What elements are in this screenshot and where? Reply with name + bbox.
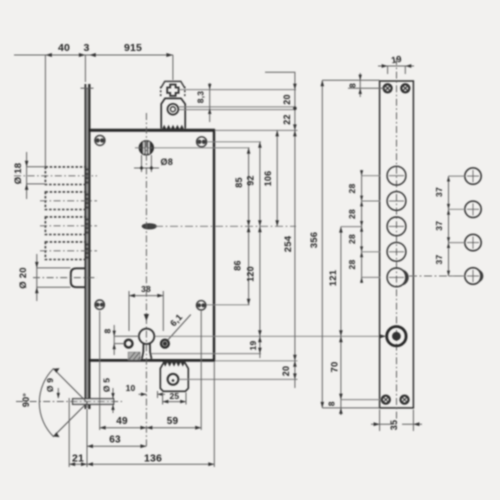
svg-text:136: 136: [144, 453, 162, 465]
dash link bottom: [409, 275, 464, 277]
svg-text:356: 356: [309, 232, 320, 248]
svg-text:3: 3: [83, 42, 89, 54]
svg-text:35: 35: [389, 420, 399, 430]
svg-text:915: 915: [124, 42, 142, 54]
bottom circle crescent: [477, 269, 484, 283]
svg-text:70: 70: [330, 362, 341, 373]
leader round hole: [179, 106, 296, 108]
chain 28x4: [361, 170, 363, 283]
bottom hole dark crescent: [401, 269, 409, 285]
deadbolt B3: [45, 217, 87, 235]
leader body top: [215, 129, 298, 131]
svg-text:254: 254: [283, 235, 294, 252]
plate outline: [380, 81, 414, 408]
leader body bottom: [215, 360, 298, 362]
lower tab: [160, 361, 188, 391]
svg-text:19: 19: [248, 341, 258, 351]
top tab lower lobe: [161, 98, 185, 128]
plate centerline: [396, 58, 398, 426]
svg-text:92: 92: [246, 175, 256, 185]
svg-text:8,3: 8,3: [196, 91, 206, 103]
svg-text:19: 19: [390, 54, 402, 66]
svg-text:21: 21: [72, 453, 84, 465]
screw hole bottom-right: [197, 301, 206, 310]
keyhole side hole left: [125, 340, 133, 348]
faceplate: [85, 88, 90, 408]
lower tab serration: [163, 362, 185, 366]
deadbolt B2: [45, 192, 87, 210]
svg-text:90°: 90°: [21, 393, 31, 407]
top tab upper lobe: [161, 81, 185, 97]
svg-text:Ø 20: Ø 20: [18, 267, 29, 288]
hatched detail: [128, 352, 140, 360]
body vertical centerline: [145, 113, 147, 446]
label Ø8: [161, 157, 173, 167]
svg-text:37: 37: [434, 187, 444, 197]
dim 21/136 arrows: [69, 462, 75, 466]
chain 106: [276, 130, 278, 226]
leader keyhole long: [155, 335, 385, 337]
keyhole side hole right: [161, 340, 169, 348]
hole crosshairs: [389, 176, 404, 278]
cylinder hole: [387, 327, 406, 346]
svg-text:28: 28: [347, 184, 357, 194]
extension lines: [69, 311, 214, 467]
dim 35 bottom: [371, 410, 422, 432]
dim Ø18: [27, 152, 45, 199]
svg-text:85: 85: [234, 177, 244, 187]
svg-text:49: 49: [116, 416, 128, 427]
svg-text:86: 86: [233, 260, 243, 270]
svg-text:8: 8: [348, 83, 358, 88]
svg-text:20: 20: [281, 366, 291, 376]
dim 8 plate top: [322, 73, 385, 97]
leader cross hole: [179, 89, 296, 91]
svg-text:121: 121: [328, 269, 339, 286]
svg-text:40: 40: [58, 42, 70, 54]
follower width dim: [134, 155, 159, 172]
leader screw bottom: [207, 304, 250, 306]
leader lower tab hole: [179, 378, 298, 380]
dim 49/59 arrows: [100, 426, 106, 430]
oval slot: [142, 224, 156, 229]
leader 6,1: [168, 315, 191, 341]
screw hole top-left: [95, 135, 105, 145]
dim 19 top: [378, 66, 414, 74]
lock body outline: [88, 129, 215, 362]
top tab serration: [162, 125, 184, 129]
svg-text:8: 8: [327, 401, 337, 406]
leader follower: [154, 147, 250, 149]
svg-text:106: 106: [263, 171, 273, 187]
plate top screw holes: [384, 84, 410, 92]
svg-text:120: 120: [246, 266, 256, 282]
chain 121/70/8: [340, 227, 342, 415]
dim Ø5: [112, 388, 114, 398]
plate bolt holes: [387, 166, 406, 286]
dim 8,3: [209, 83, 211, 122]
chain 20/22/254/20: [265, 72, 295, 388]
svg-text:Ø8: Ø8: [161, 157, 173, 167]
svg-text:28: 28: [347, 209, 357, 219]
dim 10: [139, 391, 166, 398]
dim 25: [163, 393, 186, 405]
dim 63 arrows: [87, 444, 93, 448]
arrow to keyhole: [144, 314, 149, 321]
dim 38: [129, 291, 163, 331]
svg-text:Ø 9: Ø 9: [45, 378, 55, 392]
svg-text:10: 10: [126, 383, 136, 393]
chain 356: [321, 80, 323, 408]
spindle pin: [73, 399, 114, 405]
svg-text:8: 8: [103, 328, 113, 333]
svg-text:28: 28: [347, 260, 357, 270]
deadbolt B4: [45, 242, 87, 260]
svg-text:37: 37: [434, 255, 444, 265]
screw hole top-right: [197, 137, 207, 147]
chain 92/120/19: [259, 142, 261, 358]
svg-text:Ø 5: Ø 5: [102, 378, 112, 392]
dim Ø20: [37, 254, 71, 301]
follower Ø8: [139, 141, 153, 155]
svg-text:22: 22: [282, 114, 292, 124]
leader oval: [155, 225, 296, 227]
svg-text:28: 28: [347, 234, 357, 244]
svg-text:63: 63: [109, 435, 121, 446]
svg-text:38: 38: [141, 284, 151, 294]
dim Ø9: [57, 388, 59, 398]
screw hole bottom-left: [95, 300, 104, 309]
spindle centerline: [16, 401, 122, 403]
circle crosshairs: [467, 170, 479, 282]
leader stem bottom: [151, 353, 261, 355]
plate bottom screw holes: [382, 396, 409, 404]
lower tab hole: [168, 374, 179, 385]
bolt centerlines: [14, 176, 97, 251]
svg-text:25: 25: [169, 391, 179, 401]
svg-text:37: 37: [434, 221, 444, 231]
keyhole: [139, 329, 154, 359]
knob circles: [465, 168, 481, 284]
leader screw top: [207, 141, 261, 143]
latch centerline: [33, 277, 97, 279]
svg-text:Ø 18: Ø 18: [13, 163, 24, 184]
deadbolt B1: [45, 167, 87, 185]
latch bolt: [71, 268, 86, 287]
dim 8 keyhole: [114, 325, 139, 355]
svg-text:20: 20: [282, 94, 292, 104]
svg-text:59: 59: [167, 416, 179, 427]
90 degree sector: [39, 369, 87, 437]
chain 85/86: [248, 148, 250, 305]
chain 37x3: [448, 176, 450, 276]
top tab cross hole: [167, 85, 178, 96]
top tab round hole: [168, 104, 179, 115]
